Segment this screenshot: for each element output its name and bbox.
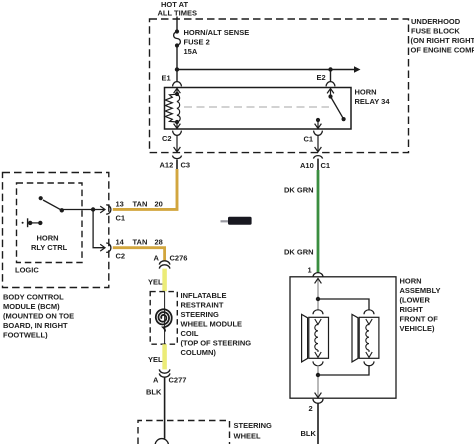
svg-text:FUSE BLOCK: FUSE BLOCK (411, 27, 460, 36)
svg-text:VEHICLE): VEHICLE) (400, 324, 436, 333)
svg-text:(MOUNTED ON TOE: (MOUNTED ON TOE (3, 312, 74, 321)
label: pin 2 (309, 404, 313, 413)
wire: YEL upper (C276 to clockspring) (162, 269, 167, 292)
svg-text:HORN: HORN (400, 277, 422, 286)
node: E2 junction (328, 67, 332, 71)
wire: TAN 28 (BCM C2 to connector C276) (113, 248, 165, 261)
left horn: coil with arrows (315, 319, 321, 357)
svg-text:28: 28 (155, 238, 163, 247)
svg-text:(TOP OF STEERING: (TOP OF STEERING (181, 339, 252, 348)
wire: feed inside horn assembly (pin 1 arrow up) (315, 278, 322, 310)
svg-text:OF ENGINE COMPARTMENT): OF ENGINE COMPARTMENT) (411, 46, 474, 55)
horn relay box (165, 88, 352, 130)
relay coil pin E1 arrow (up) (174, 88, 181, 94)
label: YEL (148, 278, 163, 287)
underhood fuse block box (dashed) (150, 19, 409, 153)
svg-text:WHEEL MODULE: WHEEL MODULE (181, 320, 243, 329)
label: C1 (304, 135, 314, 144)
wire: internal through clockspring (164, 292, 166, 345)
wire: E2 drop (330, 70, 332, 82)
right horn: trumpet trapezoid (352, 314, 358, 362)
svg-text:FRONT OF: FRONT OF (400, 315, 439, 324)
svg-text:YEL: YEL (148, 355, 163, 364)
svg-text:C1: C1 (321, 161, 331, 170)
wire: right horn to ground bus (318, 365, 369, 375)
svg-text:FOOTWELL): FOOTWELL) (3, 331, 48, 340)
steering wheel box (dashed, clipped at bottom) (138, 421, 230, 444)
pin C1 connector arc (314, 131, 323, 136)
pin 1 connector arc (313, 273, 323, 277)
splice blob artifact (221, 217, 252, 225)
label: HORN ASSEMBLY (400, 277, 441, 334)
clockspring coil spiral (156, 309, 172, 331)
svg-text:RESTRAINT: RESTRAINT (181, 301, 224, 310)
label: INFLATABLE RESTRAINT STEERING WHEEL MODULE COIL (181, 291, 252, 357)
pin E1 connector arc (173, 82, 182, 87)
svg-text:DK GRN: DK GRN (284, 186, 314, 195)
svg-text:C2: C2 (116, 252, 126, 261)
svg-text:A12: A12 (160, 161, 174, 170)
pin 2 connector arc (313, 399, 323, 403)
label: E1 (162, 74, 171, 83)
pin C2 connector arc (173, 131, 182, 136)
svg-text:BLK: BLK (146, 388, 162, 397)
svg-text:2: 2 (309, 404, 313, 413)
svg-text:STEERING: STEERING (234, 421, 273, 430)
label: C2 (162, 134, 172, 143)
svg-text:C1: C1 (304, 135, 314, 144)
svg-text:C276: C276 (170, 254, 188, 263)
label: pin 1 (308, 266, 312, 275)
wire: relay C1 to connector A10 (arrow down) (315, 135, 322, 151)
label: fuse name (184, 28, 250, 56)
svg-text:RELAY 34: RELAY 34 (355, 97, 391, 106)
node: ground junction (316, 373, 320, 377)
svg-text:20: 20 (155, 200, 163, 209)
label: DK GRN (upper) (284, 186, 314, 195)
arrow: feed continues right (354, 66, 361, 72)
connector A12/C3 arc (172, 156, 181, 159)
right horn: top arc (364, 310, 374, 314)
svg-text:RLY CTRL: RLY CTRL (31, 243, 68, 252)
svg-text:13: 13 (116, 200, 124, 209)
node: horn feed junction (316, 297, 320, 301)
wire: short black tick at A10 (317, 159, 319, 170)
wire: relay C2 to connector C3 (arrow down) (174, 135, 181, 151)
relay switch pin C1 (arrow down) (315, 118, 322, 128)
svg-text:RIGHT: RIGHT (400, 305, 424, 314)
horn switch circle (clipped) (155, 439, 168, 444)
svg-text:1: 1 (308, 266, 312, 275)
svg-text:UNDERHOOD: UNDERHOOD (411, 17, 461, 26)
relay switch arm (327, 89, 346, 122)
right horn: coil with arrows (366, 319, 372, 357)
svg-text:E1: E1 (162, 74, 171, 83)
svg-text:LOGIC: LOGIC (15, 266, 39, 275)
clockspring box (dashed) (150, 292, 177, 345)
svg-text:15A: 15A (184, 47, 198, 56)
wire: short black tick at C3 (176, 160, 178, 170)
right horn: bottom arc (364, 361, 374, 365)
svg-text:WHEEL: WHEEL (234, 432, 262, 441)
label: 14 TAN 28 / C2 (116, 238, 163, 261)
right horn: body rect (359, 317, 379, 358)
wire: left horn to ground bus (pin 2 arrow down) (315, 365, 322, 398)
label: A C277 (153, 376, 186, 385)
svg-text:FUSE 2: FUSE 2 (184, 38, 210, 47)
label: BLK (301, 429, 317, 438)
svg-text:MODULE (BCM): MODULE (BCM) (3, 302, 60, 311)
svg-text:14: 14 (116, 238, 125, 247)
label: E2 (317, 73, 326, 82)
wire: branch to right horn (318, 299, 369, 311)
label: A12 C3 (160, 161, 191, 170)
wire: YEL lower (clockspring to C277) (162, 344, 167, 369)
left horn: trumpet trapezoid (302, 314, 308, 362)
horn assembly box (290, 277, 396, 398)
wire: BLK ground wire (317, 403, 319, 444)
label: UNDERHOOD FUSE BLOCK (411, 17, 474, 55)
label: BODY CONTROL MODULE (BCM) (3, 293, 74, 340)
svg-text:STEERING: STEERING (181, 310, 220, 319)
svg-text:C1: C1 (116, 214, 126, 223)
fuse: HORN/ALT SENSE FUSE 2 15A (174, 29, 181, 47)
BCM connector C2 arc (106, 243, 111, 252)
svg-text:COLUMN): COLUMN) (181, 348, 217, 357)
svg-text:A: A (154, 254, 160, 263)
wire: junction to BCM C2 (arrow right) (93, 210, 105, 252)
label: DK GRN (lower) (284, 248, 314, 257)
svg-text:INFLATABLE: INFLATABLE (181, 291, 227, 300)
label: A C276 (154, 254, 188, 263)
svg-text:BOARD, IN RIGHT: BOARD, IN RIGHT (3, 321, 68, 330)
node: E1 junction (175, 67, 179, 71)
BCM outer box (dashed) (3, 173, 109, 288)
svg-text:YEL: YEL (148, 278, 163, 287)
label: LOGIC (15, 266, 39, 275)
label: YEL (148, 355, 163, 364)
svg-text:COIL: COIL (181, 329, 199, 338)
connector A10/C1 arc (313, 156, 322, 159)
relay coil pin C2 arrow (down) (174, 122, 181, 128)
wire: TAN 20 (BCM C1 to relay coil) (113, 169, 177, 209)
svg-text:C2: C2 (162, 134, 172, 143)
connector C277 (double arc) (159, 369, 169, 377)
label: STEERING WHEEL (234, 421, 273, 441)
svg-text:HORN/ALT SENSE: HORN/ALT SENSE (184, 28, 250, 37)
connector C276 (double arc) (159, 261, 169, 269)
svg-text:(ON RIGHT RIGHT: (ON RIGHT RIGHT (411, 36, 474, 45)
label: A10 C1 (300, 161, 330, 170)
relay mechanical link (gray dashed) (184, 106, 329, 108)
svg-text:BODY CONTROL: BODY CONTROL (3, 293, 64, 302)
wire: switch to BCM C1 (arrow right) (62, 206, 105, 213)
svg-text:A: A (153, 376, 159, 385)
wire: BLK to steering wheel (164, 377, 166, 438)
svg-text:TAN: TAN (133, 200, 148, 209)
svg-text:E2: E2 (317, 73, 326, 82)
label: HORN RLY CTRL (31, 234, 68, 253)
BCM logic box (dashed) (17, 183, 83, 263)
wire: bus from E1 to E2 and beyond (177, 69, 356, 71)
svg-text:HORN: HORN (355, 88, 377, 97)
pin E2 connector arc (326, 82, 335, 87)
svg-text:C277: C277 (169, 376, 187, 385)
BCM connector C1 arc (106, 205, 111, 214)
svg-text:ALL TIMES: ALL TIMES (158, 9, 197, 18)
svg-text:HORN: HORN (37, 234, 59, 243)
left horn: body rect (309, 317, 329, 358)
left horn: top arc (313, 310, 323, 314)
label: HOT AT ALL TIMES (158, 0, 197, 18)
svg-text:C3: C3 (181, 161, 191, 170)
svg-text:(LOWER: (LOWER (400, 296, 431, 305)
svg-text:TAN: TAN (133, 238, 148, 247)
svg-text:DK GRN: DK GRN (284, 248, 314, 257)
wire: battery feed into fuse block (176, 17, 178, 32)
switch fixed contact (22, 218, 43, 227)
node: branch junction (91, 207, 95, 211)
label: HORN RELAY 34 (355, 88, 391, 107)
wire: fuse to E1 (176, 46, 178, 82)
svg-text:ASSEMBLY: ASSEMBLY (400, 286, 441, 295)
left horn: bottom arc (313, 361, 323, 365)
label: 13 TAN 20 / C1 (116, 200, 163, 223)
relay coil (165, 92, 180, 124)
label: BLK (146, 388, 162, 397)
svg-text:BLK: BLK (301, 429, 317, 438)
switch: horn relay control (39, 196, 64, 212)
svg-text:A10: A10 (300, 161, 314, 170)
wire: DK GRN (relay C1 to horn assembly) (317, 170, 320, 272)
